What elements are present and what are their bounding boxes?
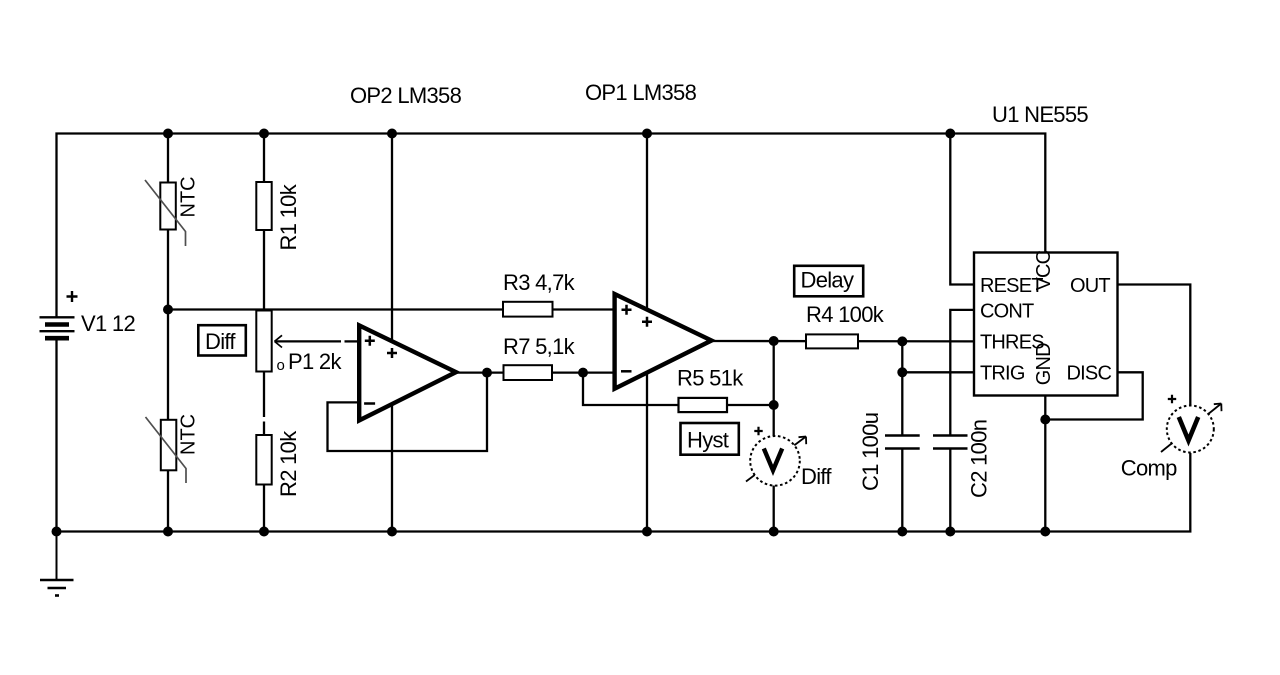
wire C2 bottom lead — [949, 449, 951, 532]
wire C1 bottom lead — [901, 449, 903, 532]
thermistor NTC1 — [145, 176, 200, 246]
svg-text:R3 4,7k: R3 4,7k — [503, 270, 576, 295]
wire Diff meter top lead — [773, 341, 775, 437]
svg-text:C2 100n: C2 100n — [967, 420, 992, 498]
wire DISC loop — [1045, 372, 1142, 419]
node OP1 minus — [578, 368, 588, 378]
svg-text:o: o — [277, 357, 285, 374]
svg-text:DISC: DISC — [1067, 363, 1112, 385]
node OP1 output — [769, 336, 779, 346]
node top rail OP2 — [387, 129, 397, 139]
svg-text:NTC: NTC — [178, 176, 200, 217]
wire U1 GND lead — [1044, 396, 1046, 532]
op-amp OP2 — [359, 325, 456, 420]
potentiometer P1 — [256, 311, 342, 375]
wire OP2 supply rail — [391, 134, 393, 532]
wire OP1 supply rail — [646, 134, 648, 532]
resistor R7 — [503, 334, 576, 380]
svg-text:NTC: NTC — [178, 414, 200, 455]
wire C1 top lead — [901, 341, 903, 435]
wire OP1 output to THRES — [712, 340, 974, 343]
wire OP2 plus input stub — [345, 340, 358, 342]
resistor R5 — [677, 366, 744, 413]
node THRES C1 — [897, 336, 907, 346]
node bottom Diff meter — [769, 527, 779, 537]
node TRIG C1 — [897, 367, 907, 377]
wire top rail VCC — [57, 134, 1046, 318]
svg-text:CONT: CONT — [980, 300, 1034, 322]
svg-text:R5 51k: R5 51k — [677, 366, 744, 391]
wire P1 wiper arrow — [275, 340, 342, 342]
svg-text:Delay: Delay — [801, 268, 854, 293]
wire NTC2 bottom lead — [167, 470, 169, 531]
svg-text:Diff: Diff — [205, 329, 236, 354]
wire NTC2 top lead — [167, 310, 169, 420]
node GND DISC — [1040, 415, 1050, 425]
svg-text:GND: GND — [1033, 343, 1055, 385]
wire RESET to VCC rail — [950, 134, 974, 285]
svg-text:OP2 LM358: OP2 LM358 — [350, 83, 462, 108]
wire bottom rail GND — [57, 338, 1191, 532]
node bottom C2 — [945, 527, 955, 537]
label box Hyst — [681, 423, 739, 455]
node bottom NTC2 — [163, 527, 173, 537]
wire R1 top lead — [263, 134, 265, 183]
wire R2 top lead — [263, 422, 265, 436]
wire OP1 feedback R5 — [583, 373, 774, 405]
svg-text:R2 10k: R2 10k — [276, 430, 301, 497]
thermistor NTC2 — [146, 414, 200, 483]
node bottom R2 — [259, 527, 269, 537]
wire OUT to Comp meter — [1118, 285, 1191, 406]
voltmeter Comp — [1121, 395, 1222, 481]
svg-text:Comp: Comp — [1121, 456, 1177, 481]
svg-text:R7 5,1k: R7 5,1k — [503, 334, 576, 359]
wire C2 top lead CONT — [950, 310, 974, 436]
node bottom OP1 — [642, 527, 652, 537]
ground — [40, 532, 74, 596]
node bottom C1 — [897, 527, 907, 537]
svg-text:R1 10k: R1 10k — [276, 183, 301, 250]
node bottom OP2 — [387, 527, 397, 537]
wire R1 bottom lead — [263, 230, 265, 310]
wire NTC1 bottom lead — [167, 230, 169, 310]
capacitor C1 — [858, 413, 920, 491]
svg-text:OUT: OUT — [1070, 275, 1110, 297]
resistor R3 — [503, 270, 576, 317]
node Diff net — [163, 305, 173, 315]
wire TRIG line — [902, 371, 974, 373]
svg-text:C1 100u: C1 100u — [858, 413, 883, 491]
svg-text:VCC: VCC — [1033, 250, 1055, 290]
svg-text:R4 100k: R4 100k — [806, 302, 885, 327]
svg-text:V1 12: V1 12 — [81, 311, 135, 336]
resistor R4 — [806, 302, 885, 348]
wire OP2 minus input feedback — [328, 373, 488, 451]
svg-text:P1 2k: P1 2k — [288, 349, 342, 374]
node top rail OP1 — [642, 129, 652, 139]
wire OP2 output to OP1 minus — [455, 371, 614, 373]
battery V1 — [40, 291, 136, 338]
node top rail RESET — [945, 129, 955, 139]
svg-text:Hyst: Hyst — [687, 428, 729, 453]
svg-text:U1 NE555: U1 NE555 — [992, 102, 1088, 127]
wire R2 bottom lead — [263, 485, 265, 532]
resistor R1 — [256, 182, 301, 251]
label box Diff — [198, 325, 246, 355]
node bottom ground tap — [52, 527, 62, 537]
capacitor C2 — [933, 420, 992, 498]
node R5 right — [769, 400, 779, 410]
label box Delay — [794, 266, 863, 297]
op-amp OP1 — [615, 294, 712, 389]
node top rail R1 — [259, 129, 269, 139]
node top rail NTC1 — [163, 129, 173, 139]
svg-text:Diff: Diff — [801, 464, 832, 489]
svg-text:TRIG: TRIG — [980, 363, 1025, 385]
voltmeter Diff — [746, 427, 832, 489]
node OP2 output — [482, 368, 492, 378]
wire P1 bottom lead — [263, 372, 265, 418]
svg-text:OP1 LM358: OP1 LM358 — [585, 80, 697, 105]
resistor R2 — [256, 430, 301, 497]
wire Diff meter bottom lead — [773, 485, 775, 532]
node bottom U1 GND — [1040, 527, 1050, 537]
IC U1 NE555 — [974, 250, 1118, 395]
wire NTC1 top lead — [167, 134, 169, 183]
wire node Diff horizontal — [168, 308, 614, 310]
